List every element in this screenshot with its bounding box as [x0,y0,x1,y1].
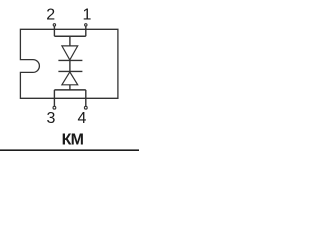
svg-text:КМ: КМ [62,132,84,149]
node terminal circle pin 4 [84,106,87,109]
wire center stub bottom [69,85,71,90]
diode VD1 cathode bar [58,59,82,61]
wire pin 1 lead [85,26,87,36]
node terminal circle pin 1 [85,24,87,26]
node terminal circle pin 2 [53,24,55,26]
svg-text:1: 1 [82,7,91,24]
bottom rule [0,149,139,151]
wire mid stub [69,60,71,71]
diode VD2 triangle [62,72,78,85]
wire center stub top [69,36,71,46]
node terminal circle pin 3 [53,106,56,109]
svg-text:3: 3 [47,110,56,127]
svg-text:4: 4 [78,110,87,127]
wire pin 3 lead [53,90,55,106]
wire top rail [54,35,85,37]
package outline with left notch [20,29,118,98]
wire bottom rail [54,89,85,91]
wire pin 4 lead [85,90,87,106]
svg-text:2: 2 [46,7,55,24]
diode VD1 triangle [62,46,78,60]
wire pin 2 lead [53,26,55,36]
diode VD2 cathode bar [58,70,82,72]
